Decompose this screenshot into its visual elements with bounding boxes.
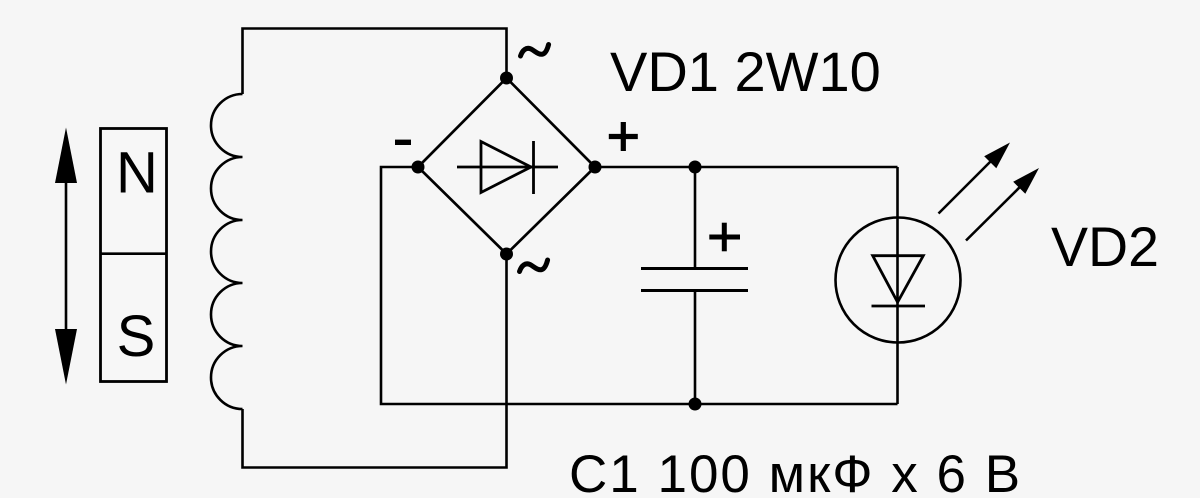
LED emission arrow 1 <box>939 143 1011 214</box>
svg-text:N: N <box>116 141 158 206</box>
wire LED branch vertical <box>896 167 899 404</box>
svg-text:С1 100 мкФ х 6 В: С1 100 мкФ х 6 В <box>569 445 1022 498</box>
node dot bridge AC bottom <box>500 248 513 261</box>
LED VD2 circle <box>836 218 961 343</box>
magnet body <box>101 129 167 382</box>
wire coil top to bridge AC top <box>243 29 507 95</box>
svg-text:S: S <box>117 304 156 369</box>
wire bridge minus down and along bottom <box>381 167 898 404</box>
bridge internal diode symbol <box>457 141 558 194</box>
capacitor C1 <box>641 167 748 404</box>
capacitor plus polarity label <box>709 223 740 252</box>
AC tilde bottom <box>520 260 548 272</box>
LED emission arrow 2 <box>966 168 1039 241</box>
magnet motion arrow <box>55 128 77 385</box>
plus polarity label <box>609 122 638 151</box>
node dot bridge minus <box>412 161 425 174</box>
junction dot capacitor bottom <box>689 398 702 411</box>
AC tilde top <box>521 45 549 57</box>
node dot bridge AC top <box>500 72 513 85</box>
wire coil bottom to bridge AC bottom <box>243 254 507 468</box>
wire bridge plus to LED branch <box>595 166 898 169</box>
coil L1 <box>211 94 242 409</box>
LED VD2 diode triangle <box>873 256 924 303</box>
junction dot capacitor top <box>689 161 702 174</box>
bridge rectifier VD1 diamond <box>418 78 595 254</box>
minus polarity label <box>395 140 411 145</box>
node dot bridge plus <box>589 161 602 174</box>
LED VD2 cathode bar <box>872 305 926 308</box>
svg-text:VD2: VD2 <box>1051 216 1159 278</box>
svg-text:VD1 2W10: VD1 2W10 <box>610 40 881 103</box>
